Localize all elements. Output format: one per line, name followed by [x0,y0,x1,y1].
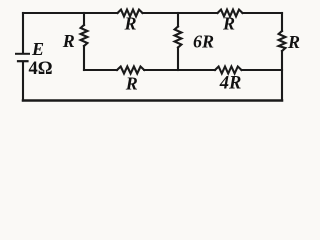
wire shunt 1 upper lead [83,13,85,25]
wire inner bottom rail left segment [84,69,117,71]
wire right branch lower [281,51,283,101]
svg-text:R: R [123,14,136,34]
svg-text:6R: 6R [193,32,214,52]
resistor R3 (left vertical shunt) [81,25,88,46]
resistor R1 (top-left horizontal) [118,10,143,17]
resistor R4 (bottom horizontal) [117,67,144,74]
wire right branch upper [281,13,283,31]
resistor R2 (top-right horizontal) [218,10,243,17]
svg-text:4Ω: 4Ω [28,59,52,79]
wire inner bottom rail right segment [242,69,283,71]
wire left branch upper (battery top lead) [22,13,24,53]
wire top rail middle segment [143,12,218,14]
resistor 4R (bottom horizontal) [215,67,242,74]
resistor 6R (middle vertical shunt) [175,27,182,48]
svg-text:4R: 4R [219,74,242,94]
svg-text:R: R [287,32,300,52]
resistor R5 (right vertical) [279,31,286,51]
wire top rail left segment [23,12,118,14]
wire shunt 2 lower lead [177,48,179,71]
svg-text:R: R [125,74,138,94]
wire top rail right segment [243,12,283,14]
wire left branch lower (battery bottom lead) [22,62,24,101]
wire shunt 2 upper lead [177,13,179,27]
wire shunt 1 lower lead [83,46,85,70]
svg-text:R: R [222,14,235,34]
battery E (cell plates) [16,53,29,55]
svg-text:R: R [62,31,75,51]
svg-text:E: E [31,39,44,59]
wire bottom outer rail [23,99,282,102]
wire inner bottom rail middle segment [144,69,215,71]
